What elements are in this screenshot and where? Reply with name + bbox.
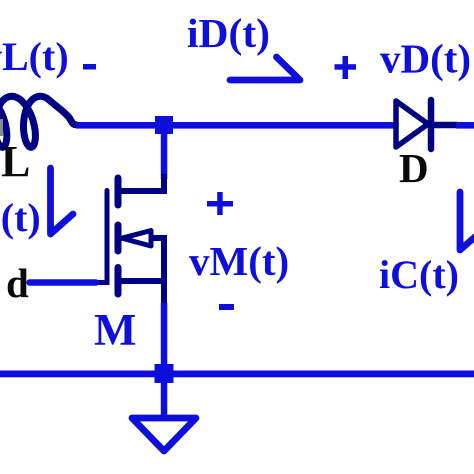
wire diode to right edge bbox=[456, 122, 474, 129]
label vM(t) bbox=[189, 238, 289, 284]
label L bbox=[1, 137, 30, 186]
svg-text:vD(t): vD(t) bbox=[380, 36, 471, 82]
label iL(t) bbox=[0, 195, 41, 240]
label iD(t) bbox=[187, 10, 270, 57]
label D bbox=[399, 145, 429, 191]
transistor M (MOSFET) bbox=[94, 174, 167, 305]
label d bbox=[6, 260, 29, 306]
node B (bottom junction) bbox=[155, 364, 174, 383]
arrow iC current bbox=[460, 192, 474, 250]
wire node to diode bbox=[156, 122, 397, 129]
svg-text:L: L bbox=[1, 137, 30, 186]
plus sign for vM bbox=[207, 192, 233, 215]
svg-text:vL(t): vL(t) bbox=[0, 34, 69, 79]
ground bbox=[132, 418, 196, 451]
plus sign for vD bbox=[335, 56, 357, 79]
wire from inductor to node bbox=[76, 122, 156, 129]
diode D bbox=[396, 100, 457, 149]
svg-text:vM(t): vM(t) bbox=[189, 238, 289, 284]
arrow iD current bbox=[230, 57, 300, 80]
svg-text:iL(t): iL(t) bbox=[0, 195, 41, 240]
label M bbox=[94, 305, 136, 355]
wire node to ground bbox=[161, 383, 168, 418]
svg-text:iC(t): iC(t) bbox=[379, 252, 459, 297]
wire d to gate bbox=[30, 279, 97, 285]
arrow iL current bbox=[51, 168, 74, 234]
minus sign for vM bbox=[219, 304, 234, 310]
bottom rail wire bbox=[0, 371, 474, 378]
label vL(t) bbox=[0, 34, 69, 79]
svg-text:D: D bbox=[399, 145, 429, 191]
svg-text:d: d bbox=[6, 260, 29, 306]
wire MOSFET source to bottom rail bbox=[161, 303, 168, 365]
minus sign for vL bbox=[83, 64, 96, 70]
svg-text:iD(t): iD(t) bbox=[187, 10, 270, 57]
wire node down to MOSFET drain bbox=[161, 127, 168, 179]
svg-text:M: M bbox=[94, 305, 136, 355]
label vD(t) bbox=[380, 36, 471, 82]
crop artifact blob bbox=[0, 119, 3, 136]
node A (top junction) bbox=[155, 116, 173, 134]
label iC(t) bbox=[379, 252, 459, 297]
inductor L bbox=[0, 96, 76, 147]
